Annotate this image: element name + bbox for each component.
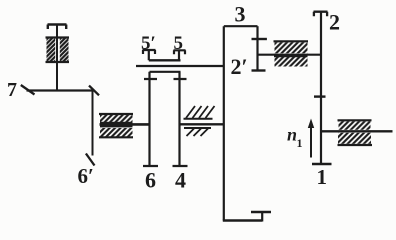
svg-text:3: 3	[235, 2, 246, 27]
sleeve bracket joining 5' and 5	[149, 59, 181, 61]
bearing on vertical shaft (hatched block)	[46, 38, 70, 63]
shaft end cap top of vertical shaft 7	[48, 25, 67, 30]
bearing on input shaft	[338, 120, 373, 145]
main right vertical shaft	[320, 12, 322, 164]
crossbar on right shaft	[314, 95, 326, 97]
arrow n1	[310, 126, 312, 158]
svg-text:5: 5	[174, 33, 184, 54]
right upper shaft (planet shaft to main axis)	[258, 54, 321, 56]
middle shaft left segment	[100, 123, 150, 126]
carrier output stub	[261, 212, 263, 222]
gear 5'	[143, 50, 156, 60]
upper shaft of gears 5' and 5	[136, 65, 224, 67]
svg-text:2: 2	[329, 10, 340, 35]
middle shaft right segment	[180, 123, 224, 125]
sliding cluster bracket joining gears 6 and 4	[150, 71, 181, 73]
svg-text:1: 1	[317, 165, 328, 189]
bevel mesh tick right	[89, 86, 99, 96]
carrier arm 3 vertical line	[223, 26, 225, 220]
svg-text:5′: 5′	[141, 33, 156, 54]
svg-text:6: 6	[145, 168, 156, 193]
left bearing on middle shaft	[99, 114, 133, 137]
gear 2' crossbar	[252, 38, 267, 40]
stub end T-bar	[251, 211, 271, 213]
svg-text:1: 1	[297, 136, 303, 150]
gear 2' bottom T-bar	[252, 69, 266, 71]
carrier top arm	[224, 25, 258, 27]
gear 6	[143, 72, 158, 167]
bearing on right upper shaft	[274, 41, 309, 66]
svg-text:4: 4	[175, 168, 186, 193]
top end cap of right shaft	[314, 12, 328, 17]
bevel mesh tick left	[21, 85, 35, 95]
carrier bottom arm	[223, 219, 262, 221]
gear 4	[173, 72, 188, 167]
input shaft 1 horizontal	[321, 130, 393, 132]
svg-text:n: n	[287, 125, 297, 145]
bevel mesh tick 6'	[86, 154, 95, 166]
svg-text:2′: 2′	[231, 54, 248, 79]
planet shaft and gear 2' line	[256, 26, 258, 70]
vertical shaft carrying bevel gear 7	[56, 25, 58, 91]
svg-text:7: 7	[7, 79, 17, 101]
gear 5	[174, 50, 186, 60]
vertical line down to bevel gear 6'	[92, 91, 94, 156]
bevel gear 7 horizontal line	[27, 89, 93, 91]
bottom T-bar (gear 1 shaft end)	[312, 163, 332, 166]
right bearing on middle shaft (open hatch style)	[184, 106, 215, 136]
svg-text:6′: 6′	[78, 164, 94, 188]
